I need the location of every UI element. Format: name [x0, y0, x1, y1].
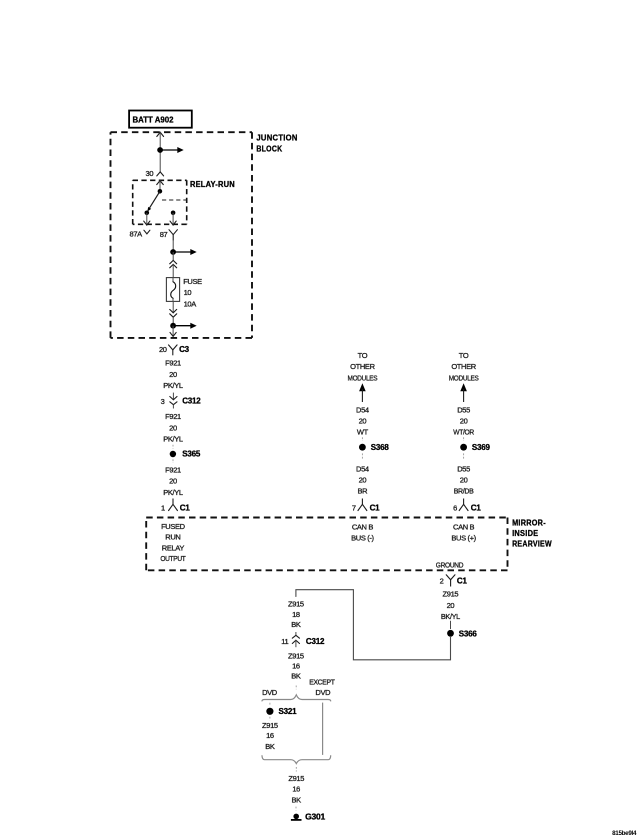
- svg-text:MIRROR-: MIRROR-: [512, 517, 546, 527]
- svg-text:MODULES: MODULES: [348, 373, 378, 382]
- svg-text:Z915: Z915: [262, 721, 278, 730]
- svg-text:BATT A902: BATT A902: [133, 116, 175, 125]
- inline connector chevrons above fuse: [170, 260, 177, 263]
- svg-text:D55: D55: [457, 465, 470, 474]
- arrow: CAN B (-) to other modules: [359, 383, 366, 391]
- svg-text:F921: F921: [165, 359, 181, 368]
- splice S321 (DVD): [269, 703, 271, 707]
- svg-text:10: 10: [184, 288, 192, 297]
- svg-text:BK: BK: [265, 742, 275, 751]
- relay pin 87 dot: [171, 211, 176, 216]
- svg-text:S369: S369: [472, 443, 491, 452]
- brace: branches rejoin: [262, 756, 331, 764]
- svg-text:INSIDE: INSIDE: [512, 528, 538, 538]
- svg-text:FUSE: FUSE: [183, 277, 202, 286]
- svg-text:S365: S365: [182, 450, 201, 459]
- svg-text:C312: C312: [306, 637, 325, 646]
- svg-text:BK: BK: [291, 671, 301, 680]
- splice S369: [463, 437, 465, 441]
- svg-text:C1: C1: [180, 503, 191, 512]
- svg-text:D54: D54: [356, 405, 369, 414]
- svg-text:16: 16: [292, 785, 300, 794]
- svg-text:PK/YL: PK/YL: [163, 381, 183, 390]
- svg-text:20: 20: [159, 345, 167, 354]
- relay pin 87 arrow down: [172, 213, 174, 225]
- svg-text:PK/YL: PK/YL: [163, 435, 183, 444]
- svg-text:16: 16: [266, 731, 274, 740]
- svg-text:20: 20: [447, 601, 455, 610]
- svg-text:20: 20: [169, 477, 177, 486]
- inline connector chevrons below fuse: [172, 301, 174, 312]
- svg-text:RELAY: RELAY: [162, 543, 185, 552]
- svg-text:Z915: Z915: [288, 600, 304, 609]
- svg-text:S368: S368: [371, 443, 390, 452]
- node dot on battery feed: [157, 147, 163, 153]
- relay pin 87A arrow down: [146, 213, 148, 225]
- svg-text:F921: F921: [165, 465, 181, 474]
- svg-text:BR/DB: BR/DB: [454, 486, 474, 495]
- svg-text:BK: BK: [292, 795, 302, 804]
- svg-text:RUN: RUN: [165, 533, 180, 542]
- svg-text:87: 87: [160, 230, 168, 239]
- svg-text:TO: TO: [459, 351, 469, 360]
- svg-text:87A: 87A: [130, 230, 143, 239]
- relay RELAY-RUN dashed box: [133, 179, 187, 181]
- svg-text:7: 7: [352, 503, 356, 512]
- svg-text:C312: C312: [182, 397, 201, 406]
- svg-text:REARVIEW: REARVIEW: [512, 538, 552, 548]
- svg-text:WT/OR: WT/OR: [453, 428, 474, 437]
- svg-text:MODULES: MODULES: [449, 373, 479, 382]
- svg-text:OUTPUT: OUTPUT: [160, 554, 186, 563]
- svg-text:BUS (-): BUS (-): [351, 533, 374, 542]
- arrow: feed to other circuits: [160, 149, 178, 151]
- svg-text:FUSED: FUSED: [161, 522, 186, 531]
- svg-text:3: 3: [161, 397, 165, 406]
- connector half at relay pin 30: [157, 172, 164, 176]
- svg-text:OTHER: OTHER: [350, 362, 375, 371]
- wire: node to fuse connector: [172, 252, 174, 260]
- svg-text:10A: 10A: [184, 300, 197, 309]
- junction block dashed box: [111, 131, 253, 133]
- relay pin 87A dot: [145, 211, 150, 216]
- svg-text:BR: BR: [358, 486, 369, 495]
- mirror-inside-rearview dashed box: [146, 517, 507, 519]
- splice S368: [361, 437, 363, 441]
- svg-text:F921: F921: [165, 412, 181, 421]
- svg-text:D55: D55: [457, 405, 470, 414]
- svg-text:DVD: DVD: [315, 688, 331, 697]
- arrow: fused feed to other circuits: [173, 251, 191, 253]
- branch stub above splice brace: [295, 686, 297, 690]
- svg-text:BUS (+): BUS (+): [451, 533, 476, 542]
- svg-text:S321: S321: [279, 707, 298, 716]
- svg-text:20: 20: [359, 476, 367, 485]
- node dot above fuse: [170, 249, 176, 255]
- svg-text:WT: WT: [357, 428, 369, 437]
- svg-text:BK: BK: [291, 620, 301, 629]
- svg-text:D54: D54: [356, 465, 369, 474]
- relay switch common dot: [158, 189, 163, 194]
- svg-text:C1: C1: [457, 576, 468, 585]
- svg-text:20: 20: [169, 423, 177, 432]
- node dot below fuse: [170, 323, 176, 329]
- svg-text:11: 11: [281, 637, 288, 646]
- wire exits junction block: [172, 326, 174, 337]
- stub below rejoin brace: [295, 767, 297, 772]
- pin 87A connector half unused: [144, 230, 150, 234]
- stub above ground: [295, 807, 297, 811]
- wire: S366 ground path to C312: [296, 590, 451, 660]
- svg-text:TO: TO: [358, 351, 368, 360]
- wire: battery feed into junction block: [157, 132, 164, 136]
- svg-text:20: 20: [460, 417, 468, 426]
- svg-text:20: 20: [169, 370, 177, 379]
- relay switch arm with arrowhead: [149, 191, 160, 208]
- svg-text:20: 20: [460, 476, 468, 485]
- pin 87 connector half: [169, 230, 177, 235]
- svg-text:CAN B: CAN B: [352, 522, 374, 531]
- svg-text:G301: G301: [305, 812, 325, 822]
- svg-text:20: 20: [359, 417, 367, 426]
- svg-text:18: 18: [292, 610, 300, 619]
- brace: wire splits to DVD / except-DVD: [262, 695, 331, 701]
- svg-text:OTHER: OTHER: [451, 362, 476, 371]
- svg-text:Z915: Z915: [288, 651, 304, 660]
- svg-text:C3: C3: [179, 345, 190, 354]
- wire: relay 87 to fuse node: [172, 241, 174, 252]
- relay pin 30 arrow into relay: [157, 181, 164, 185]
- svg-text:16: 16: [292, 661, 300, 670]
- svg-text:DVD: DVD: [262, 688, 278, 697]
- power feed box BATT A902: [129, 111, 192, 128]
- svg-text:JUNCTION: JUNCTION: [256, 133, 297, 143]
- svg-text:RELAY-RUN: RELAY-RUN: [190, 180, 235, 189]
- svg-text:C1: C1: [370, 503, 381, 512]
- svg-text:EXCEPT: EXCEPT: [309, 677, 335, 686]
- svg-text:C1: C1: [471, 503, 482, 512]
- svg-text:30: 30: [146, 169, 154, 178]
- svg-text:PK/YL: PK/YL: [163, 488, 183, 497]
- svg-text:CAN B: CAN B: [453, 522, 475, 531]
- svg-text:6: 6: [453, 503, 457, 512]
- svg-text:Z915: Z915: [443, 590, 459, 599]
- svg-text:BK/YL: BK/YL: [441, 612, 460, 621]
- svg-text:GROUND: GROUND: [436, 560, 464, 569]
- splice S365: [172, 445, 174, 449]
- svg-text:BLOCK: BLOCK: [256, 144, 282, 154]
- arrow: CAN B (+) to other modules: [460, 383, 467, 391]
- svg-text:815be9l4: 815be9l4: [612, 830, 637, 837]
- relay internal dashed link: [162, 199, 187, 201]
- svg-text:Z915: Z915: [288, 774, 304, 783]
- fuse body: [166, 278, 179, 302]
- arrow: fuse output to other circuits: [173, 325, 191, 327]
- svg-text:1: 1: [161, 503, 165, 512]
- ground G301: [293, 814, 299, 820]
- splice S366: [450, 621, 452, 629]
- wire: except-DVD branch: [322, 703, 324, 755]
- svg-text:2: 2: [440, 576, 444, 585]
- svg-text:S366: S366: [459, 630, 478, 639]
